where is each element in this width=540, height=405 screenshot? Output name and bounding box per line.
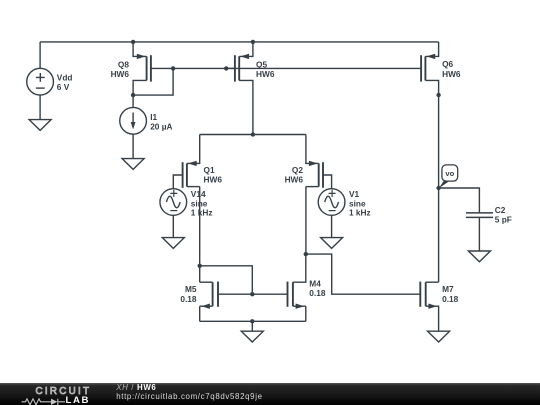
svg-text:M4: M4 [309,279,321,289]
transistor Q2 (PMOS) [306,135,332,190]
arrow Q1 source [188,161,197,166]
ground below M7 [428,331,450,342]
wire mid ground stub [251,321,253,331]
voltage source Vdd [27,68,54,95]
node Q6 drain [436,93,440,97]
ground below C2 [468,251,490,262]
label Q5 [256,59,275,79]
label I1 value [150,112,172,132]
svg-text:Q6: Q6 [442,59,453,69]
svg-text:1 kHz: 1 kHz [349,208,371,218]
label V1 value [349,189,371,217]
node top rail / Q5 [251,40,255,44]
wire vo to C2 [439,188,480,213]
node vo flag [439,165,458,188]
wire gate rail M5-M4 [218,293,288,295]
svg-text:Q8: Q8 [118,59,129,69]
svg-text:M5: M5 [185,284,197,294]
label M4 [309,279,326,299]
node M5-M4 gate [250,292,254,296]
arrow M7 source [428,304,437,309]
transistor Q5 (PMOS) [226,42,253,135]
transistor Q1 (PMOS) [173,135,199,190]
svg-text:1 kHz: 1 kHz [191,208,213,218]
ground below I1 [122,159,144,170]
svg-text:M7: M7 [442,284,454,294]
arrow Q2 source [309,161,318,166]
logo resistor and diode glyph [19,397,69,405]
label M7 [442,284,459,304]
arrow Q6 source [426,54,435,59]
svg-text:HW6: HW6 [442,69,461,79]
logo LAB text [66,395,91,405]
arrow M4 source [296,304,305,309]
wire M5 drain-gate tie [200,266,253,294]
footer url [116,392,262,401]
svg-text:HW6: HW6 [256,69,275,79]
wire Q1 drain to M5 [199,187,201,283]
svg-text:C2: C2 [495,205,506,215]
arrow Q5 source [240,54,249,59]
current source I1 [120,107,147,134]
label Q8 [111,59,130,79]
voltage source V1 (sine) [318,189,345,216]
transistor Q8 (PMOS) [133,42,173,95]
logo CIRCUIT text [36,386,92,397]
svg-text:Q5: Q5 [256,59,267,69]
node source rail [250,319,254,323]
transistor Q6 (PMOS) [421,42,439,95]
ground below V14 [162,238,184,249]
svg-text:I1: I1 [150,112,157,122]
svg-text:HW6: HW6 [111,69,130,79]
svg-text:5 pF: 5 pF [495,215,512,225]
ground below V1 [321,238,343,249]
svg-text:20 µA: 20 µA [150,121,172,131]
label M5 [180,284,197,304]
wire M5 source stub [199,306,201,321]
wire C2 bottom stub [478,217,480,251]
wire Vdd bottom stub [39,95,41,120]
transistor M7 (NMOS) [420,282,438,332]
transistor M4 (NMOS) [288,254,306,307]
wire Q6 drain to vo [438,95,440,188]
node top rail / Q8 [131,40,135,44]
label Q1 [204,165,223,185]
wire gate rail Q8-Q5-Q6 [173,67,421,69]
node Q8 drain / I1 [131,93,135,97]
wire bottom source rail [200,320,306,322]
svg-text:0.18: 0.18 [442,294,459,304]
wire Vdd top stub [39,42,41,69]
svg-text:Vdd: Vdd [57,72,73,82]
svg-text:Q1: Q1 [204,165,215,175]
arrow Q8 source [137,54,146,59]
wire I1 bottom stub [132,134,134,158]
footer bar [0,383,540,405]
svg-text:HW6: HW6 [285,175,304,185]
wire V1 bottom stub [331,215,333,237]
svg-text:Q2: Q2 [292,165,303,175]
svg-text:vo: vo [445,169,454,178]
wire Q2 drain to M4 node [305,187,307,255]
label V14 value [191,189,213,217]
label C2 value [495,205,512,225]
ground below M5 M4 rail [241,331,263,342]
wire vo to M7 drain [438,188,440,282]
footer title XH / HW6 [116,383,156,392]
wire V14 bottom stub [172,215,174,237]
label Vdd value [57,72,73,92]
node vo [436,186,440,190]
node M4 drain [304,252,308,256]
node Q8 gate tie [171,66,175,70]
wire Q8 gate-drain tie [133,68,173,95]
wire M4 source stub [305,306,307,321]
node tail [251,132,255,136]
svg-text:6 V: 6 V [57,82,70,92]
node M5 drain [198,264,202,268]
label Q6 [442,59,461,79]
label Q2 [285,165,304,185]
wire top Vdd rail [40,41,439,43]
wire tail rail [200,134,306,136]
capacitor C2 [466,213,493,218]
arrow I1 direction [131,122,136,129]
svg-text:0.18: 0.18 [180,294,197,304]
wire M4 drain to M7 gate [306,254,421,294]
ground below Vdd [29,120,51,131]
svg-text:0.18: 0.18 [309,288,326,298]
voltage source V14 (sine) [160,189,187,216]
svg-text:HW6: HW6 [204,175,223,185]
node Q5 gate pin [224,66,228,70]
transistor M5 (NMOS) [200,282,218,307]
arrow M5 source [201,304,210,309]
wire I1 top stub [132,95,134,107]
